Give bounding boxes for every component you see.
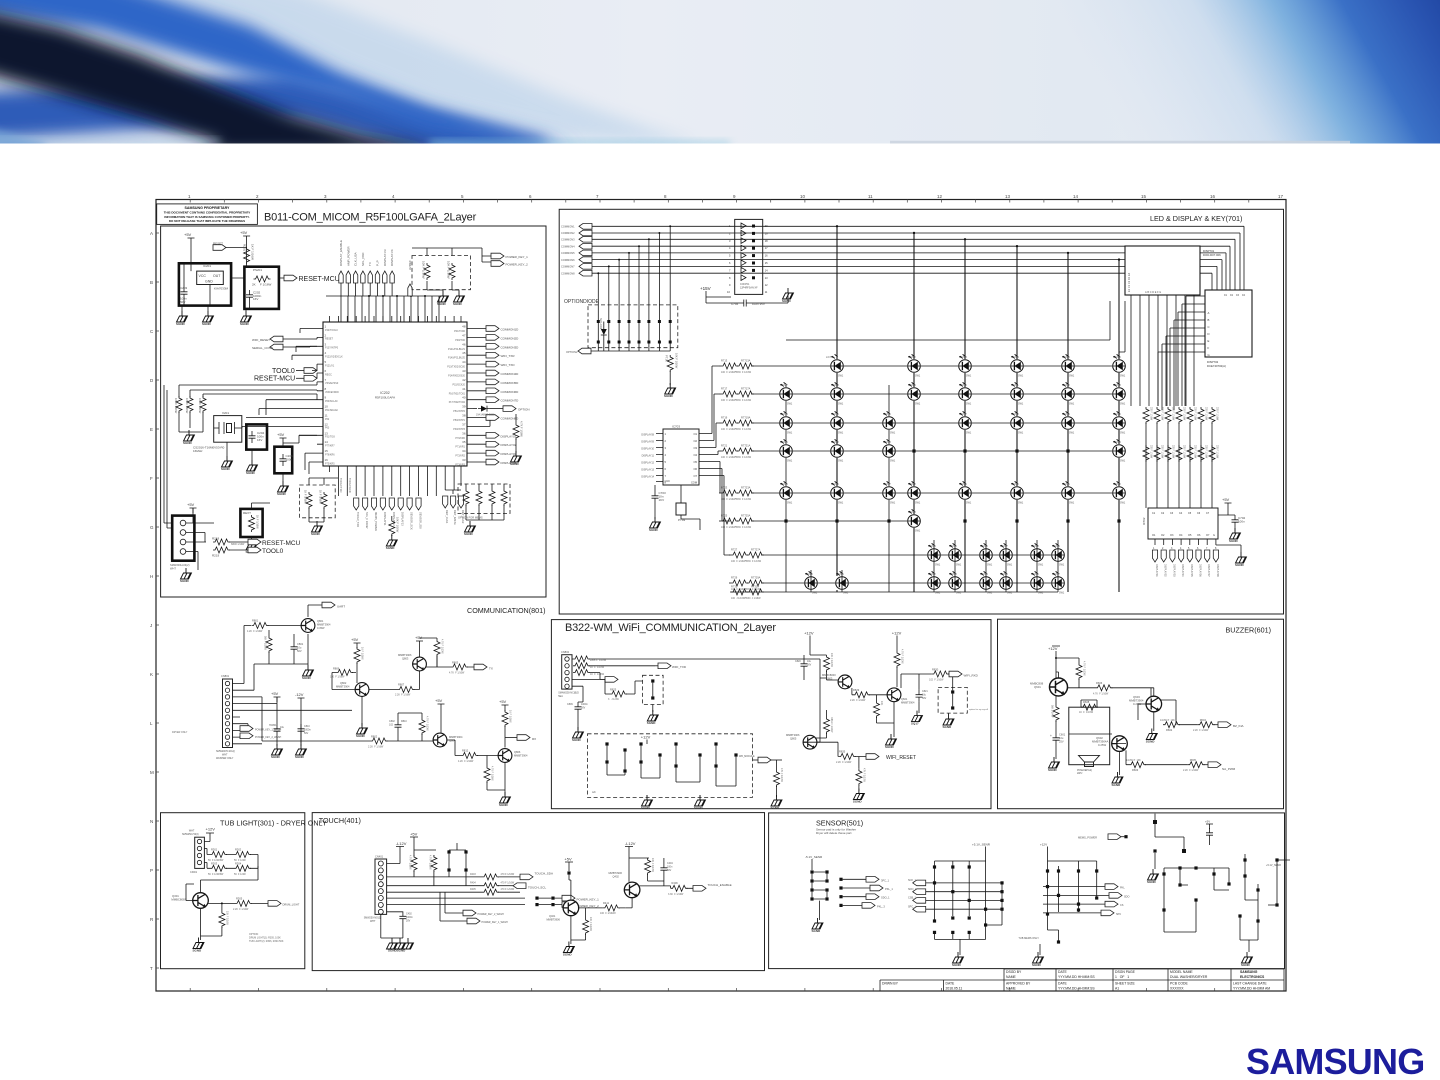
svg-text:SGND: SGND bbox=[1241, 963, 1251, 967]
svg-text:+5.1V_SENR: +5.1V_SENR bbox=[972, 843, 991, 847]
resistor R831 vertical bbox=[824, 710, 834, 738]
svg-text:4.7K F 1/10W: 4.7K F 1/10W bbox=[449, 672, 465, 675]
wire LED matrix column verticals bbox=[837, 226, 1119, 592]
bottom net arrows row 2 bbox=[443, 490, 465, 525]
resistor R411t bbox=[578, 901, 625, 915]
svg-text:R605: R605 bbox=[1190, 758, 1197, 762]
svg-text:SW1: SW1 bbox=[987, 564, 993, 567]
svg-text:10K F 1/16W: 10K F 1/16W bbox=[589, 917, 592, 932]
net arrow DISPLAY07 bbox=[1205, 550, 1211, 577]
svg-text:P13/TXD2/SO20: P13/TXD2/SO20 bbox=[447, 366, 465, 369]
IC202 pin numbers left bbox=[325, 325, 329, 463]
svg-text:MMBT3904: MMBT3904 bbox=[317, 622, 331, 626]
+5V right cap bbox=[1205, 820, 1213, 846]
transistor Q803 bbox=[398, 653, 426, 671]
+12V buzzer flag bbox=[1048, 646, 1060, 679]
svg-text:DRWN BY: DRWN BY bbox=[882, 982, 899, 986]
net TOOL0 bottom bbox=[229, 547, 284, 555]
svg-text:R606: R606 bbox=[1096, 681, 1103, 685]
wire LED row 5 bbox=[720, 492, 1119, 494]
IC202 top pin stubs bbox=[330, 316, 462, 322]
ground C809 bbox=[572, 727, 584, 742]
ground CON701 bbox=[782, 288, 794, 303]
svg-text:1/10W P 10K: 1/10W P 10K bbox=[1126, 759, 1141, 762]
wire Q301 collector bbox=[186, 866, 258, 901]
svg-text:100 F 1/16W5536 F 1/16W: 100 F 1/16W5536 F 1/16W bbox=[721, 399, 752, 402]
svg-text:SW1: SW1 bbox=[966, 403, 972, 406]
ground C601 bbox=[1048, 757, 1060, 772]
svg-text:C: C bbox=[1208, 325, 1210, 329]
svg-text:10: 10 bbox=[800, 194, 806, 199]
wire display drop bundle bbox=[1131, 296, 1199, 410]
svg-text:R404: R404 bbox=[470, 882, 476, 885]
ground C206 bbox=[277, 435, 317, 496]
svg-text:DEP_CLK1: DEP_CLK1 bbox=[445, 510, 449, 524]
-12V comm flag bbox=[295, 692, 305, 744]
ground R828 bbox=[771, 795, 783, 810]
OPTIONDIODE dashed box bbox=[564, 299, 678, 351]
svg-text:10K F 1/16W: 10K F 1/16W bbox=[198, 398, 202, 414]
svg-text:B011-COM_MICOM_R5F100LGAFA_2La: B011-COM_MICOM_R5F100LGAFA_2Layer bbox=[264, 212, 477, 224]
svg-text:TUB LIGHT(2): R306, R304 56K: TUB LIGHT(2): R306, R304 56K bbox=[249, 940, 284, 943]
svg-text:R807: R807 bbox=[398, 683, 405, 687]
top right feed wire bbox=[1153, 814, 1185, 853]
LED/photo-transistor LED723 bbox=[882, 439, 896, 462]
resistor trio left R204 bbox=[185, 396, 193, 414]
svg-text:+5V: +5V bbox=[415, 635, 423, 640]
IC703 driver bbox=[641, 425, 706, 486]
svg-text:100 F 1/16W5536 F 1/16W: 100 F 1/16W5536 F 1/16W bbox=[721, 371, 752, 374]
junction pad row 6 x1119 bbox=[1117, 519, 1120, 522]
svg-text:16: 16 bbox=[1210, 194, 1216, 199]
svg-text:1 OF 1: 1 OF 1 bbox=[1115, 975, 1129, 979]
svg-text:1K F 1/16W: 1K F 1/16W bbox=[361, 647, 364, 660]
svg-text:DISPLAY10: DISPLAY10 bbox=[641, 448, 654, 451]
svg-text:14: 14 bbox=[1073, 194, 1079, 199]
svg-text:TOUCH(401): TOUCH(401) bbox=[319, 816, 361, 825]
net arrow BZ_INA bbox=[1218, 722, 1244, 728]
grid2 wire rows with arrows right bbox=[1043, 884, 1129, 916]
svg-text:CSB_1: CSB_1 bbox=[908, 897, 917, 900]
svg-text:DISPLAY11: DISPLAY11 bbox=[383, 512, 387, 526]
net arrow POWER_KEY_1t bbox=[535, 895, 599, 901]
ground C821 + SQ17 bbox=[911, 711, 923, 726]
svg-text:B: B bbox=[150, 280, 153, 285]
svg-text:Q806: Q806 bbox=[514, 750, 521, 754]
svg-text:P_P: P_P bbox=[376, 260, 380, 266]
svg-text:D: D bbox=[1208, 332, 1210, 336]
svg-text:R403: R403 bbox=[470, 873, 476, 876]
svg-text:O4: O4 bbox=[694, 453, 698, 457]
svg-text:POWER_KEY_1: POWER_KEY_1 bbox=[577, 897, 600, 901]
header streak bright blue band bbox=[0, 0, 575, 148]
svg-text:DEP_DATA1: DEP_DATA1 bbox=[453, 510, 457, 525]
left net RESET-MCU bbox=[254, 373, 317, 383]
ground module 2 bbox=[694, 795, 706, 810]
svg-text:E1 C1 C2 D1 E4: E1 C1 C2 D1 E4 bbox=[1127, 272, 1131, 292]
svg-text:2.2K F 1/10W: 2.2K F 1/10W bbox=[1183, 769, 1199, 772]
resistor R731 row8b bbox=[731, 585, 764, 601]
block border MICOM bbox=[161, 226, 546, 597]
svg-text:SDO_1: SDO_1 bbox=[908, 888, 917, 891]
svg-text:48: 48 bbox=[462, 325, 466, 329]
wire Q402 collector chain bbox=[639, 881, 671, 886]
junction dots on bus bbox=[368, 295, 426, 297]
svg-text:2kHz: 2kHz bbox=[1077, 772, 1083, 775]
header cyan tail along bottom bbox=[430, 139, 730, 147]
capacitor C601 bbox=[1050, 733, 1066, 760]
TOOL0/TX labels bottom bbox=[339, 478, 352, 493]
svg-text:+5.1V_SENR: +5.1V_SENR bbox=[1266, 864, 1281, 867]
LED/photo-transistor LED701 bbox=[826, 354, 844, 377]
svg-text:330 F 1/16W: 330 F 1/16W bbox=[1205, 407, 1207, 421]
svg-text:P72/KR2: P72/KR2 bbox=[455, 455, 465, 458]
svg-text:SGND: SGND bbox=[1235, 563, 1245, 567]
ground dashed box bottom-left bbox=[311, 521, 323, 536]
svg-text:+12V: +12V bbox=[1048, 646, 1058, 651]
svg-text:SW1: SW1 bbox=[956, 564, 962, 567]
net arrow WIFI_RESET bbox=[866, 754, 916, 761]
svg-text:SAMSUNG: SAMSUNG bbox=[1240, 970, 1258, 974]
+5V Q804 flag bbox=[435, 698, 445, 733]
svg-text:Q601: Q601 bbox=[1034, 685, 1041, 689]
resistor R606 bbox=[1079, 681, 1151, 696]
transistor Q401 bbox=[547, 875, 579, 922]
svg-text:43: 43 bbox=[462, 369, 466, 373]
svg-text:DISPLAY13: DISPLAY13 bbox=[641, 469, 654, 472]
svg-text:P73/KR3: P73/KR3 bbox=[455, 464, 465, 467]
ground C703 bbox=[649, 517, 661, 532]
svg-text:DISPLAY02: DISPLAY02 bbox=[1164, 564, 1167, 577]
transistor Q601 bbox=[1030, 678, 1068, 696]
net arrow POWER_KEY_2_WASH bbox=[240, 733, 281, 739]
svg-text:IC702: IC702 bbox=[1142, 517, 1146, 525]
svg-text:L/C719: L/C719 bbox=[1062, 413, 1070, 416]
svg-text:47: 47 bbox=[462, 333, 466, 337]
resistor RB75 array2 bbox=[1197, 444, 1207, 466]
svg-text:T: T bbox=[150, 966, 153, 971]
svg-text:NA_PWM: NA_PWM bbox=[1222, 767, 1236, 771]
net arrow POWER_KEY_2t bbox=[535, 902, 599, 908]
svg-text:0.25W: 0.25W bbox=[1098, 743, 1106, 747]
svg-text:DISPLAY12: DISPLAY12 bbox=[641, 462, 654, 465]
svg-text:SGND: SGND bbox=[510, 462, 520, 466]
resistor R830 bbox=[901, 668, 949, 689]
svg-text:RESET-MCU: RESET-MCU bbox=[262, 540, 301, 547]
resistor R808 vertical bbox=[354, 647, 364, 683]
svg-text:R830: R830 bbox=[932, 668, 939, 672]
svg-text:50V: 50V bbox=[922, 697, 927, 700]
svg-text:OPTIONDIODE: OPTIONDIODE bbox=[564, 299, 600, 305]
svg-text:P00/TI00: P00/TI00 bbox=[455, 339, 465, 342]
svg-text:R7713A: R7713A bbox=[741, 359, 751, 363]
svg-text:+5V: +5V bbox=[271, 691, 279, 696]
resistor R601 vertical bbox=[1051, 696, 1060, 734]
ground resistor trio bbox=[179, 412, 203, 445]
ground C204 bbox=[246, 450, 258, 475]
filter box PS201 thick bbox=[244, 267, 279, 309]
LED/photo-transistor LED719 bbox=[1061, 411, 1075, 434]
svg-text:SGND: SGND bbox=[647, 721, 657, 725]
svg-text:K: K bbox=[150, 672, 153, 677]
svg-text:POWER_KEY_2: POWER_KEY_2 bbox=[506, 263, 529, 267]
resistor RB70 array2 bbox=[1142, 444, 1152, 466]
svg-text:SGND: SGND bbox=[240, 322, 250, 326]
wire bus COMMON5 bbox=[592, 253, 1226, 290]
svg-text:40: 40 bbox=[462, 396, 466, 400]
ground dashed right bbox=[943, 713, 955, 729]
svg-text:L/C744: L/C744 bbox=[980, 573, 988, 576]
resistor RA75 array1 bbox=[1197, 406, 1207, 428]
svg-text:10K F 1/16W: 10K F 1/16W bbox=[447, 261, 451, 279]
svg-text:O7: O7 bbox=[694, 474, 698, 478]
resistor R305 bbox=[208, 896, 269, 911]
resistor R832 vertical bbox=[894, 649, 904, 687]
svg-text:IC703: IC703 bbox=[672, 425, 680, 429]
svg-text:SGND: SGND bbox=[386, 546, 396, 550]
grounds below dashed box bbox=[427, 290, 465, 306]
svg-text:AMP_POWER: AMP_POWER bbox=[346, 246, 350, 266]
svg-text:L/C724: L/C724 bbox=[1113, 441, 1121, 444]
svg-text:17: 17 bbox=[1278, 194, 1284, 199]
svg-text:COMMON6: COMMON6 bbox=[561, 258, 575, 262]
+5V IC702 bbox=[1218, 497, 1232, 515]
ground R220 bbox=[510, 451, 522, 466]
resistor RB71 array2 bbox=[1153, 444, 1163, 466]
resistor R717 row 2 bbox=[719, 387, 754, 403]
svg-text:10u: 10u bbox=[297, 645, 302, 649]
ground C810 bbox=[295, 744, 307, 759]
svg-text:L/C712: L/C712 bbox=[1062, 384, 1070, 387]
wire LED row 7 bbox=[730, 554, 1058, 556]
svg-text:2.2K F 1/10W: 2.2K F 1/10W bbox=[836, 761, 852, 764]
svg-text:SGND: SGND bbox=[271, 755, 281, 759]
svg-text:COMMON2: COMMON2 bbox=[561, 231, 575, 235]
svg-text:RESET-MCU: RESET-MCU bbox=[254, 376, 295, 383]
svg-text:P15/SCK20: P15/SCK20 bbox=[453, 383, 466, 386]
+12V module bbox=[641, 735, 651, 745]
svg-text:C801: C801 bbox=[297, 642, 304, 646]
block border BUZZER bbox=[998, 619, 1284, 809]
svg-text:SW1: SW1 bbox=[1120, 460, 1126, 463]
svg-text:SGND: SGND bbox=[464, 532, 474, 536]
ground Q602 bbox=[1112, 752, 1124, 788]
LED/photo-transistor LED716 bbox=[882, 411, 896, 434]
svg-text:COMMON7D: COMMON7D bbox=[501, 399, 520, 403]
top bus wires into QFP bbox=[341, 283, 392, 296]
resistor R201 vertical bbox=[243, 244, 255, 264]
svg-text:330 F 1/16W: 330 F 1/16W bbox=[1161, 407, 1163, 421]
svg-text:R719: R719 bbox=[721, 416, 728, 420]
svg-text:SW1: SW1 bbox=[915, 502, 921, 505]
resistor R412t vertical bbox=[428, 855, 437, 886]
IC202 right pin stubs bbox=[467, 329, 473, 463]
left long wires to pins bbox=[179, 382, 317, 400]
block border WiFi bbox=[551, 620, 991, 809]
bottom pin drop wires bbox=[338, 472, 461, 496]
svg-text:4.2K F 1/10W: 4.2K F 1/10W bbox=[458, 760, 474, 763]
svg-text:NAME: NAME bbox=[1006, 987, 1017, 991]
net arrow TX bbox=[474, 664, 493, 670]
svg-text:DRYER ONLY: DRYER ONLY bbox=[172, 731, 188, 734]
svg-text:R805: R805 bbox=[452, 661, 459, 665]
LED/photo-transistor LED733 bbox=[907, 509, 921, 532]
net arrows row above QFP bbox=[339, 240, 395, 283]
resistor R405 row3 bbox=[470, 888, 520, 896]
svg-text:C3001: C3001 bbox=[190, 871, 198, 874]
svg-text:P76/KR6: P76/KR6 bbox=[325, 453, 335, 456]
svg-text:P62: P62 bbox=[325, 418, 330, 421]
+5V rail flag 1 bbox=[184, 232, 195, 243]
svg-text:10K F 1/16W: 10K F 1/16W bbox=[675, 353, 679, 369]
svg-text:SW1: SW1 bbox=[966, 432, 972, 435]
svg-text:DOD-D07.006: DOD-D07.006 bbox=[1203, 253, 1221, 257]
svg-text:R7729A: R7729A bbox=[751, 576, 761, 580]
svg-text:P77/KR7: P77/KR7 bbox=[325, 445, 335, 448]
svg-text:L/C738: L/C738 bbox=[1031, 545, 1039, 548]
capacitor C809 bbox=[567, 702, 588, 730]
net arrow WR_MODULE bbox=[739, 755, 782, 763]
sensor arrows group1 bbox=[839, 877, 893, 909]
junction pad row 4 x914 bbox=[912, 449, 915, 452]
svg-text:1K F 1/16W: 1K F 1/16W bbox=[319, 490, 323, 504]
svg-text:10K F 1/16W: 10K F 1/16W bbox=[225, 911, 228, 926]
IC202 pin numbers right bbox=[462, 325, 466, 463]
capacitor C404 bbox=[660, 858, 673, 881]
svg-text:4.7K F 1/10W: 4.7K F 1/10W bbox=[1093, 692, 1109, 695]
gnd arrows small pair bbox=[572, 677, 618, 702]
resistor RA73 array1 bbox=[1175, 406, 1185, 428]
block border SENSOR bbox=[769, 813, 1285, 969]
+5V Q806 flag bbox=[499, 699, 509, 710]
ground X201 bbox=[221, 442, 233, 471]
resistor R802 bbox=[262, 735, 434, 749]
svg-text:R219: R219 bbox=[212, 554, 220, 558]
ground PS201 bbox=[240, 311, 252, 326]
svg-text:DISPLAY.V3: DISPLAY.V3 bbox=[383, 249, 387, 266]
svg-text:L/C720: L/C720 bbox=[1113, 413, 1121, 416]
svg-text:PCB CODE: PCB CODE bbox=[1170, 982, 1188, 986]
svg-text:SGND: SGND bbox=[1032, 963, 1042, 967]
svg-text:LED & DISPLAY & KEY(701): LED & DISPLAY & KEY(701) bbox=[1150, 214, 1242, 223]
svg-text:330 F 1/16W: 330 F 1/16W bbox=[1194, 407, 1196, 421]
svg-text:SW1: SW1 bbox=[787, 403, 793, 406]
LED/photo-transistor LED721 bbox=[779, 439, 793, 462]
resistor R219 bbox=[212, 547, 230, 558]
resistor R604 bbox=[1193, 718, 1218, 732]
svg-text:P16/TI01/TO01: P16/TI01/TO01 bbox=[449, 392, 466, 395]
svg-text:R825: R825 bbox=[610, 688, 617, 692]
svg-text:POWER_KEY_1_WASH: POWER_KEY_1_WASH bbox=[482, 921, 508, 924]
svg-text:SW1: SW1 bbox=[1069, 432, 1075, 435]
+12V rail Q805 bbox=[804, 631, 826, 656]
svg-text:+12V: +12V bbox=[641, 735, 651, 740]
svg-text:+5V: +5V bbox=[1205, 820, 1210, 824]
+12V touch flag bbox=[387, 841, 407, 864]
block border TOUCH bbox=[312, 813, 764, 971]
LED/photo-transistor LED740 bbox=[804, 571, 818, 594]
svg-text:TOUCH_ENABLE: TOUCH_ENABLE bbox=[708, 883, 732, 887]
transistor Q603 bbox=[1129, 695, 1162, 712]
svg-text:-5.1V_SENR: -5.1V_SENR bbox=[805, 855, 823, 859]
svg-text:DISPLAY12: DISPLAY12 bbox=[392, 512, 396, 526]
svg-text:56 F 1/4W5W: 56 F 1/4W5W bbox=[208, 873, 224, 876]
dashed box small top bbox=[643, 675, 664, 712]
svg-text:OUT: OUT bbox=[213, 274, 221, 278]
svg-text:1K F 1/16W: 1K F 1/16W bbox=[1079, 711, 1094, 714]
svg-text:46: 46 bbox=[462, 342, 466, 346]
svg-text:Dryer will delete these part: Dryer will delete these part bbox=[816, 831, 852, 835]
svg-text:DUAL WASHER/DRYER: DUAL WASHER/DRYER bbox=[1170, 975, 1208, 979]
svg-text:O5: O5 bbox=[694, 460, 698, 464]
junction pad row 6 x965 bbox=[963, 519, 966, 522]
svg-text:R7719A: R7719A bbox=[741, 416, 751, 420]
svg-text:SGND: SGND bbox=[641, 806, 651, 810]
svg-text:L/C704: L/C704 bbox=[1011, 356, 1019, 359]
svg-text:WHT: WHT bbox=[170, 567, 176, 571]
resistor RB76 array2 bbox=[1208, 444, 1218, 466]
junction pad row 6 x1068 bbox=[1066, 519, 1069, 522]
label -5.1V_SENR left bbox=[805, 855, 823, 870]
ground REXT bbox=[246, 503, 271, 554]
net RESET-MCU bottom bbox=[229, 539, 301, 547]
svg-text:PS201: PS201 bbox=[253, 268, 262, 272]
connector CN802 bbox=[558, 650, 579, 698]
svg-text:SGND: SGND bbox=[782, 299, 792, 303]
svg-text:10K F 1/10W: 10K F 1/10W bbox=[830, 653, 833, 668]
svg-text:H: H bbox=[150, 574, 153, 579]
ground R716 bbox=[664, 383, 676, 398]
wire tap to option diode 2 bbox=[608, 266, 610, 321]
svg-text:3.3K F 1/16W: 3.3K F 1/16W bbox=[668, 893, 684, 896]
capacitor C801 bbox=[269, 634, 304, 664]
svg-text:P122/X2/EXCLK: P122/X2/EXCLK bbox=[325, 356, 343, 359]
wire Q805 to Q801w bbox=[816, 738, 838, 749]
junction pad row 6 x786 bbox=[784, 519, 787, 522]
resistor R602 bbox=[1160, 719, 1198, 732]
svg-text:PKL_1: PKL_1 bbox=[885, 887, 893, 891]
svg-text:L/C747: L/C747 bbox=[1052, 573, 1060, 576]
resistor R825 bbox=[605, 679, 643, 701]
svg-text:L/C734: L/C734 bbox=[928, 545, 936, 548]
crystal X201 bbox=[193, 411, 242, 453]
svg-text:16MHz: 16MHz bbox=[193, 449, 203, 453]
svg-text:330 F 1/16W: 330 F 1/16W bbox=[1194, 445, 1196, 459]
resistor R406 bbox=[668, 881, 693, 896]
svg-text:SW1: SW1 bbox=[1059, 592, 1065, 595]
svg-text:VCC: VCC bbox=[199, 274, 207, 278]
svg-text:SHEET SIZE: SHEET SIZE bbox=[1115, 982, 1135, 986]
svg-text:SGND: SGND bbox=[1146, 740, 1156, 744]
svg-text:SW1: SW1 bbox=[1018, 502, 1024, 505]
svg-text:Q821: Q821 bbox=[901, 697, 908, 701]
resistor RA70 array1 bbox=[1142, 406, 1152, 428]
net arrow UART bbox=[308, 602, 345, 617]
svg-text:10K F 1/16W: 10K F 1/16W bbox=[396, 517, 400, 533]
resistor RA72 array1 bbox=[1164, 406, 1174, 428]
resistor R716 vertical bbox=[665, 353, 679, 385]
svg-text:P71/KR1: P71/KR1 bbox=[455, 446, 465, 449]
svg-text:SGND: SGND bbox=[277, 492, 287, 496]
net arrow COMMON2 bbox=[561, 230, 592, 236]
+12V rail Q801w bbox=[892, 631, 902, 652]
svg-text:REGC: REGC bbox=[325, 373, 332, 376]
svg-text:SW1: SW1 bbox=[1069, 403, 1075, 406]
svg-text:L/C732: L/C732 bbox=[1113, 483, 1121, 486]
sensor grid 2 bbox=[1018, 861, 1129, 967]
svg-text:NAME: NAME bbox=[1006, 975, 1017, 979]
+5V rail flag 2 bbox=[240, 230, 250, 241]
